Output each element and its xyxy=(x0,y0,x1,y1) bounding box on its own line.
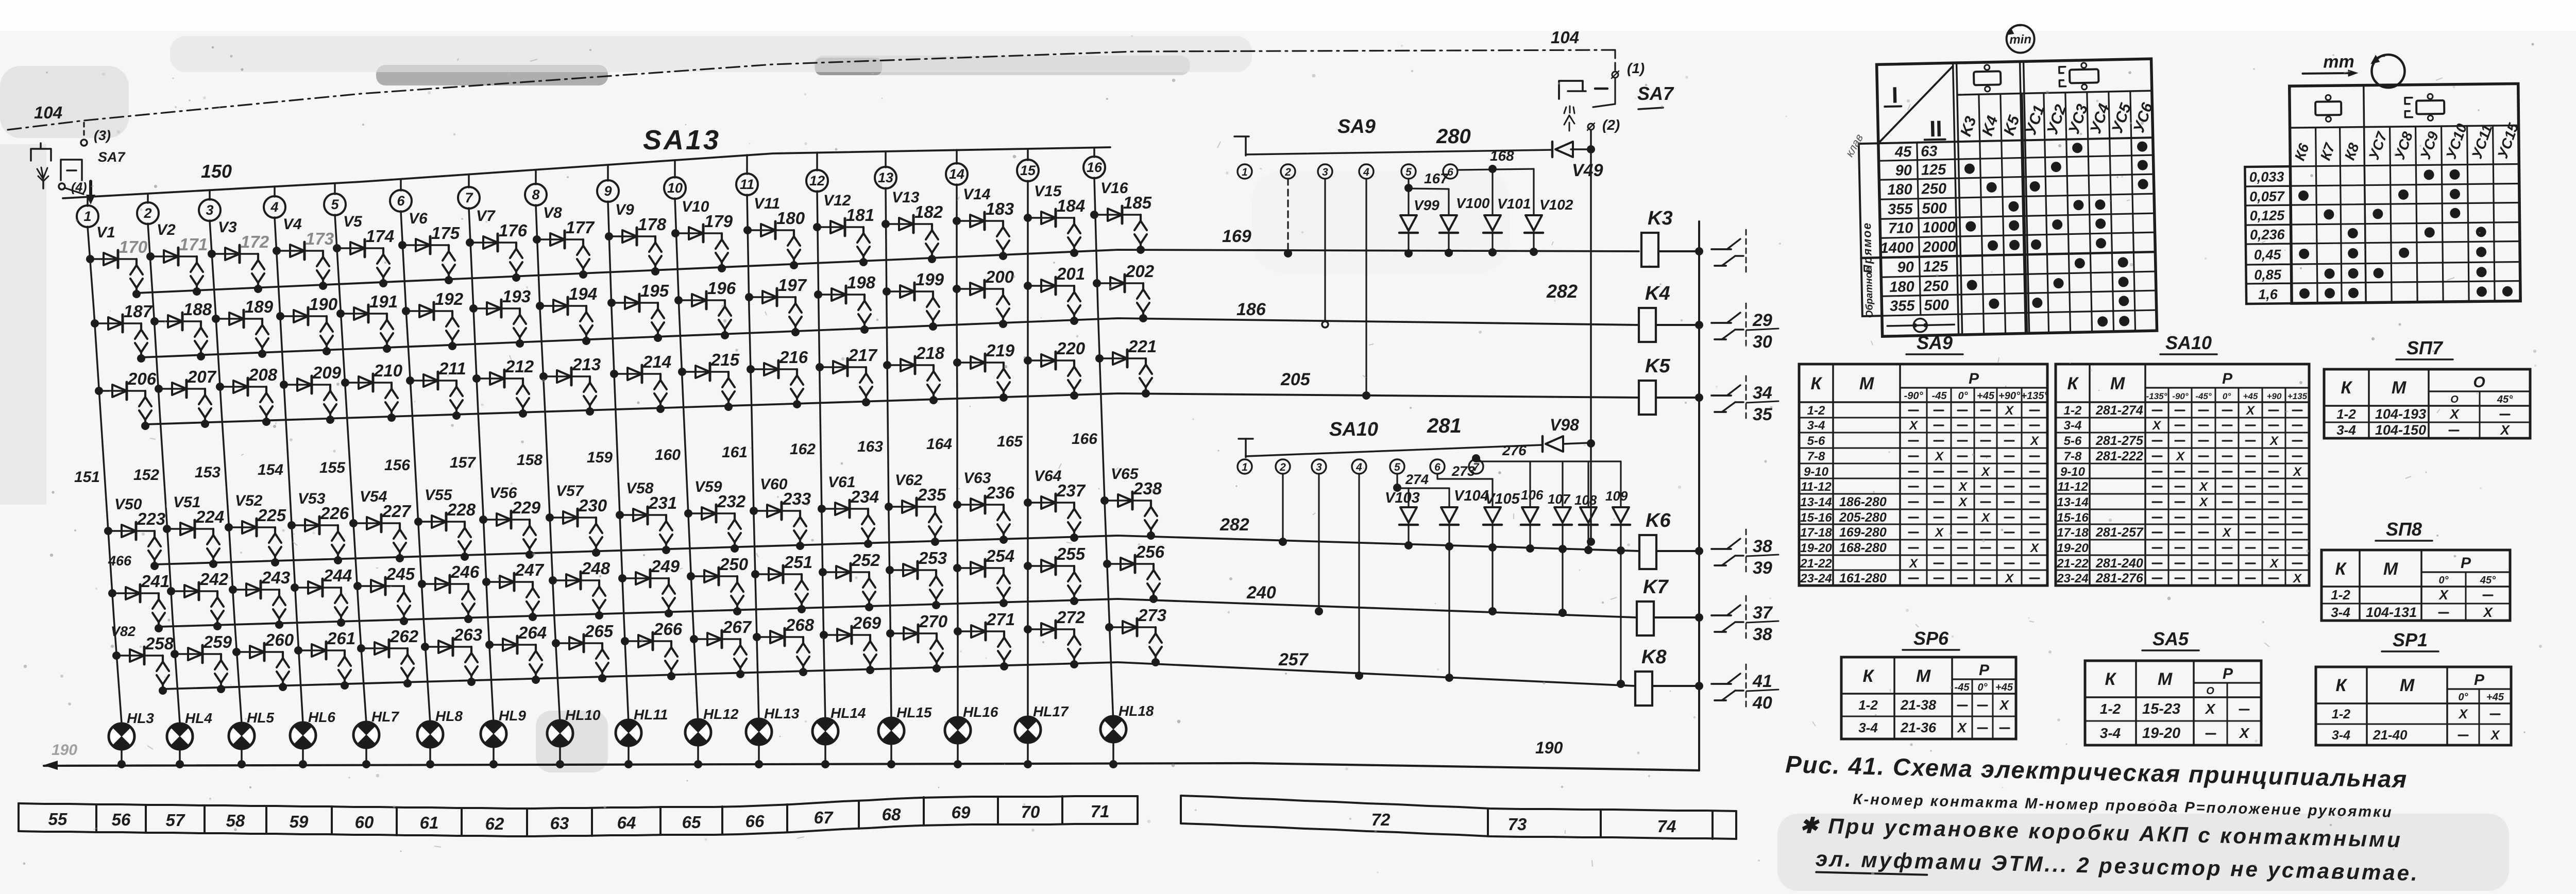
connector of diode 219 xyxy=(1003,363,1005,369)
wire SA10 contact 3 to 240 xyxy=(1318,474,1319,610)
svg-text:X: X xyxy=(2239,725,2250,741)
svg-text:34: 34 xyxy=(1753,383,1772,403)
svg-text:187: 187 xyxy=(124,302,153,321)
svg-text:29: 29 xyxy=(1752,311,1772,330)
svg-text:250: 250 xyxy=(1923,278,1948,295)
svg-text:45: 45 xyxy=(1894,144,1912,161)
diode V54 (227) xyxy=(353,522,400,524)
diode V15 (184) xyxy=(1028,217,1074,219)
relay K5 coil xyxy=(1639,381,1656,415)
svg-text:65: 65 xyxy=(682,813,701,832)
connector of diode 244 xyxy=(340,588,342,594)
table SA5 xyxy=(2085,661,2261,745)
svg-text:+45: +45 xyxy=(2486,692,2504,703)
svg-text:(3): (3) xyxy=(94,128,111,143)
diode V59 (232) xyxy=(688,512,735,514)
connector of diode V52 xyxy=(274,527,276,534)
svg-text:15-23: 15-23 xyxy=(2142,701,2180,717)
diode V198 (198) xyxy=(818,294,865,296)
switch SA9 contact 6 xyxy=(1443,164,1458,179)
svg-text:V2: V2 xyxy=(157,221,176,238)
svg-text:265: 265 xyxy=(584,622,614,641)
diode V50 (223) xyxy=(108,530,155,532)
diode V215 (215) xyxy=(682,371,728,373)
svg-text:192: 192 xyxy=(435,289,464,308)
svg-text:HL12: HL12 xyxy=(703,706,739,722)
connector of diode 265 xyxy=(601,643,603,649)
svg-text:3-4: 3-4 xyxy=(2064,419,2082,433)
connector of diode V56 xyxy=(529,520,531,526)
svg-text:170: 170 xyxy=(119,237,148,256)
wire collector (right vertical) xyxy=(1698,221,1700,770)
svg-text:М: М xyxy=(2400,676,2415,695)
svg-text:180: 180 xyxy=(776,209,805,228)
diode 108 (SA10 group) xyxy=(1587,461,1589,507)
svg-text:X: X xyxy=(2198,495,2209,509)
diode V99 xyxy=(1408,188,1409,215)
wire column 9 xyxy=(608,201,629,723)
svg-text:V101: V101 xyxy=(1497,196,1531,212)
svg-text:X: X xyxy=(2222,526,2232,540)
svg-text:V52: V52 xyxy=(235,492,263,509)
svg-text:72: 72 xyxy=(1371,810,1391,829)
svg-text:212: 212 xyxy=(505,357,534,376)
diode V260 (260) xyxy=(236,651,283,653)
svg-text:71: 71 xyxy=(1091,802,1110,821)
junction lamp HL11 to wire 190 xyxy=(628,747,630,764)
svg-text:205-280: 205-280 xyxy=(1839,510,1887,525)
switch SA10 contact 2 xyxy=(1276,459,1290,474)
svg-text:106: 106 xyxy=(1521,487,1544,503)
svg-text:246: 246 xyxy=(450,562,480,581)
switch SA10 wiper corner xyxy=(1239,438,1253,440)
svg-text:268: 268 xyxy=(785,615,815,634)
svg-text:X: X xyxy=(2151,419,2162,433)
wire 190 (lamp return bus) xyxy=(44,763,1699,770)
svg-text:104-193: 104-193 xyxy=(2375,406,2426,422)
diode V56 (229) xyxy=(483,519,530,521)
lamp HL11 xyxy=(616,720,641,746)
diode V247 (247) xyxy=(486,581,533,583)
svg-text:63: 63 xyxy=(1921,143,1938,160)
switch SA9 contact 2 xyxy=(1281,164,1295,179)
connector of diode 245 xyxy=(403,586,405,592)
diode V55 (228) xyxy=(418,521,465,523)
svg-text:1: 1 xyxy=(1242,461,1248,473)
node 16 (column wire circle) xyxy=(1093,148,1095,157)
svg-text:59: 59 xyxy=(290,812,309,831)
svg-text:К: К xyxy=(2067,374,2079,393)
icon: clutch with pins (T1 right group) xyxy=(2070,69,2099,83)
wire 169 (row bus) xyxy=(137,250,1639,293)
diode V103 (SA10 group) xyxy=(1408,488,1409,507)
connector of diode V57 xyxy=(595,518,597,524)
svg-text:4: 4 xyxy=(270,199,278,215)
wire 109 branch to 257 xyxy=(1620,550,1621,683)
svg-text:259: 259 xyxy=(203,632,232,651)
svg-text:HL13: HL13 xyxy=(764,706,800,721)
svg-text:5: 5 xyxy=(331,197,339,212)
svg-text:V100: V100 xyxy=(1456,195,1490,211)
svg-text:1: 1 xyxy=(83,209,91,224)
svg-text:272: 272 xyxy=(1056,608,1086,627)
svg-text:М: М xyxy=(2158,669,2173,689)
svg-text:11: 11 xyxy=(740,177,754,192)
svg-text:69: 69 xyxy=(952,803,971,822)
svg-text:V64: V64 xyxy=(1034,468,1062,485)
svg-text:V57: V57 xyxy=(556,483,584,500)
wire relay K3 to collector xyxy=(1658,250,1699,252)
svg-text:219: 219 xyxy=(986,341,1015,360)
diode V253 (253) xyxy=(890,569,936,571)
svg-text:168-280: 168-280 xyxy=(1839,541,1887,555)
switch SA7 (right) blade xyxy=(1614,78,1616,103)
svg-text:199: 199 xyxy=(916,270,944,289)
diode V195 (195) xyxy=(612,302,658,304)
diode V2 (171) xyxy=(150,255,197,257)
svg-text:21-36: 21-36 xyxy=(1900,720,1937,735)
connector of diode 252 xyxy=(868,572,870,578)
svg-text:62: 62 xyxy=(485,814,504,833)
svg-text:30: 30 xyxy=(1753,332,1772,352)
svg-text:214: 214 xyxy=(642,352,671,371)
svg-text:178: 178 xyxy=(638,215,667,234)
switch SA9 contact 5 xyxy=(1401,164,1416,179)
switch SA9 contact 3 xyxy=(1318,164,1332,179)
svg-text:V65: V65 xyxy=(1111,466,1139,483)
svg-text:37: 37 xyxy=(1753,603,1773,623)
svg-text:V15: V15 xyxy=(1034,183,1062,200)
svg-text:276: 276 xyxy=(1502,442,1527,458)
junction lamp HL5 to wire 190 xyxy=(241,750,243,764)
diode V218 (218) xyxy=(887,364,934,366)
svg-text:281-257: 281-257 xyxy=(2095,525,2144,540)
svg-text:0,125: 0,125 xyxy=(2249,208,2285,223)
svg-text:38: 38 xyxy=(1753,537,1772,556)
svg-text:19-20: 19-20 xyxy=(1800,541,1832,555)
wire 186 (row bus) xyxy=(141,318,1639,357)
diode V192 (192) xyxy=(406,310,452,312)
svg-text:281-222: 281-222 xyxy=(2095,449,2143,463)
svg-text:176: 176 xyxy=(499,221,528,240)
svg-text:2: 2 xyxy=(1279,461,1286,473)
diode V6 (175) xyxy=(402,244,449,246)
svg-text:HL4: HL4 xyxy=(185,710,212,726)
svg-text:125: 125 xyxy=(1923,259,1949,276)
svg-text:V63: V63 xyxy=(963,470,991,487)
wire 273 xyxy=(1436,474,1438,479)
svg-text:208: 208 xyxy=(248,365,278,384)
junction lamp HL4 to wire 190 xyxy=(179,750,181,764)
switch SA10 contact 5 xyxy=(1390,459,1404,474)
svg-text:6: 6 xyxy=(1447,166,1453,178)
junction wire 280 / wire 282 xyxy=(1587,145,1595,153)
wire 104 (top dash-dot bus) xyxy=(8,50,1615,130)
junction lamp HL10 to wire 190 xyxy=(559,747,561,764)
wire column 3 xyxy=(210,220,242,723)
connector of diode 213 xyxy=(589,376,591,383)
diode V255 (255) xyxy=(1028,565,1074,567)
svg-text:180: 180 xyxy=(1887,181,1912,198)
svg-text:V56: V56 xyxy=(489,485,517,502)
connector of diode 193 xyxy=(519,308,521,315)
svg-text:156: 156 xyxy=(384,457,410,474)
svg-text:74: 74 xyxy=(1657,817,1676,836)
svg-text:4: 4 xyxy=(1355,461,1362,473)
connector of diode 211 xyxy=(455,381,457,387)
svg-text:HL17: HL17 xyxy=(1033,703,1069,719)
wire column 15 xyxy=(1027,181,1029,723)
svg-text:HL15: HL15 xyxy=(896,704,932,720)
svg-text:V102: V102 xyxy=(1539,197,1573,213)
svg-text:K5: K5 xyxy=(1645,355,1670,377)
node 5 (column wire circle) xyxy=(334,183,336,194)
diode V221 (221) xyxy=(1099,357,1146,359)
connector of diode 207 xyxy=(204,389,206,395)
connector of diode V60 xyxy=(799,511,801,517)
svg-text:1-2: 1-2 xyxy=(2100,701,2121,717)
svg-text:162: 162 xyxy=(790,441,816,458)
diode V9 (178) xyxy=(609,235,655,237)
svg-text:245: 245 xyxy=(386,564,415,583)
wire column 7 xyxy=(469,208,494,723)
diode V193 (193) xyxy=(473,307,520,310)
svg-text:209: 209 xyxy=(312,363,342,382)
switch SA10 contact 3 xyxy=(1312,459,1326,474)
connector of diode V10 xyxy=(721,233,723,239)
connector of diode 194 xyxy=(585,306,587,312)
svg-text:15: 15 xyxy=(1020,163,1036,178)
svg-text:К: К xyxy=(2341,378,2353,398)
diode V245 (245) xyxy=(358,585,404,587)
junction lamp HL8 to wire 190 xyxy=(429,748,431,764)
svg-text:V16: V16 xyxy=(1100,180,1128,197)
node 13 (column wire circle) xyxy=(885,151,887,167)
svg-text:241: 241 xyxy=(141,572,170,591)
svg-text:249: 249 xyxy=(651,557,680,576)
svg-text:104-131: 104-131 xyxy=(2366,605,2417,620)
svg-text:0,45: 0,45 xyxy=(2254,247,2282,263)
diode V194 (194) xyxy=(540,305,586,307)
svg-text:158: 158 xyxy=(517,452,543,469)
connector of diode 243 xyxy=(278,590,280,596)
diode V219 (219) xyxy=(957,362,1004,364)
svg-text:0°: 0° xyxy=(2458,692,2468,703)
connector of diode V55 xyxy=(464,522,466,528)
svg-text:267: 267 xyxy=(722,617,752,637)
connector of diode 217 xyxy=(865,367,867,373)
svg-text:109: 109 xyxy=(1605,488,1628,504)
svg-text:SП7: SП7 xyxy=(2406,337,2444,358)
svg-text:193: 193 xyxy=(502,287,531,306)
svg-text:207: 207 xyxy=(187,367,217,386)
svg-text:HL5: HL5 xyxy=(247,710,274,726)
svg-text:3-4: 3-4 xyxy=(2331,605,2350,620)
connector of diode 242 xyxy=(216,591,218,597)
connector of diode 196 xyxy=(724,300,726,306)
svg-text:X: X xyxy=(1908,557,1919,571)
table SП7 xyxy=(2324,369,2530,438)
svg-text:163: 163 xyxy=(857,438,883,455)
contact of relay K8 xyxy=(1711,683,1731,685)
diode V11 (180) xyxy=(748,229,794,231)
svg-text:251: 251 xyxy=(784,553,812,572)
svg-text:1-2: 1-2 xyxy=(2336,406,2356,422)
svg-text:V8: V8 xyxy=(543,204,562,221)
wire relay K5 to collector xyxy=(1656,397,1699,399)
switch SA7 (right) minus link xyxy=(1595,88,1607,90)
switch SA10 contact 4 xyxy=(1352,459,1366,474)
diode 107 (SA10 group) xyxy=(1562,461,1563,507)
table SA9 xyxy=(1799,364,2047,586)
icon: relay coil with pins (T1 left group) xyxy=(1974,71,2001,85)
diode V272 (272) xyxy=(1028,628,1074,630)
svg-text:60: 60 xyxy=(355,813,374,832)
svg-text:2: 2 xyxy=(1284,166,1291,178)
wire column 10 xyxy=(675,198,698,723)
svg-text:280: 280 xyxy=(1436,125,1471,148)
svg-text:198: 198 xyxy=(847,273,876,292)
svg-text:-45°: -45° xyxy=(2195,391,2212,401)
diode V244 (244) xyxy=(295,587,341,589)
svg-text:0,85: 0,85 xyxy=(2254,267,2282,283)
svg-text:X: X xyxy=(2292,465,2302,479)
svg-text:104: 104 xyxy=(34,103,62,122)
svg-text:X: X xyxy=(2004,404,2014,418)
svg-text:466: 466 xyxy=(108,553,132,569)
connector of diode V13 xyxy=(931,224,933,230)
diode V13 (182) xyxy=(886,223,932,225)
svg-text:67: 67 xyxy=(814,808,834,827)
svg-text:+45: +45 xyxy=(1995,682,2013,693)
connector of diode V65 xyxy=(1150,501,1152,507)
svg-text:I: I xyxy=(1891,82,1898,108)
switch SA9 contact 4 xyxy=(1359,164,1374,179)
svg-text:О: О xyxy=(2206,685,2214,697)
svg-text:SA10: SA10 xyxy=(1329,419,1378,440)
diode V196 (196) xyxy=(679,299,725,301)
svg-text:М: М xyxy=(2110,374,2125,393)
diode V200 (200) xyxy=(957,288,1003,290)
svg-text:V82: V82 xyxy=(111,624,135,639)
svg-text:V58: V58 xyxy=(626,480,654,497)
svg-text:5: 5 xyxy=(1405,166,1412,178)
junction lamp HL17 to wire 190 xyxy=(1027,744,1029,764)
connector of diode 209 xyxy=(329,385,331,391)
svg-text:190: 190 xyxy=(309,295,338,314)
connector of diode 249 xyxy=(668,578,670,584)
svg-text:281-275: 281-275 xyxy=(2095,434,2144,448)
svg-text:186: 186 xyxy=(1236,300,1266,319)
svg-text:196: 196 xyxy=(707,279,736,298)
svg-text:152: 152 xyxy=(133,467,159,484)
svg-text:V105: V105 xyxy=(1485,491,1520,507)
svg-text:-45: -45 xyxy=(1955,682,1970,693)
svg-text:X: X xyxy=(2449,406,2460,422)
svg-text:255: 255 xyxy=(1056,544,1086,563)
wire 280 xyxy=(1246,150,1552,154)
switch SA7 (left) hand-drive symbol xyxy=(42,181,44,188)
svg-text:X: X xyxy=(1980,511,1991,525)
connector of diode 246 xyxy=(467,584,469,590)
svg-text:14: 14 xyxy=(949,166,964,182)
svg-text:189: 189 xyxy=(245,297,274,316)
svg-text:К: К xyxy=(2335,559,2347,579)
diode V246 (246) xyxy=(422,583,468,585)
svg-text:X: X xyxy=(1956,720,1967,735)
connector of diode 251 xyxy=(801,574,803,580)
svg-text:Р: Р xyxy=(2461,555,2471,572)
svg-text:66: 66 xyxy=(745,812,765,831)
svg-text:1-2: 1-2 xyxy=(2332,707,2350,721)
svg-text:104: 104 xyxy=(1551,28,1579,47)
svg-text:41: 41 xyxy=(1752,672,1772,691)
wire column 11 xyxy=(747,195,759,723)
svg-text:0°: 0° xyxy=(1958,390,1968,402)
connector of diode 200 xyxy=(1002,289,1004,295)
svg-text:М: М xyxy=(1916,666,1931,686)
connector of diode 255 xyxy=(1073,566,1075,572)
diode V5 (174) xyxy=(337,247,383,249)
diode V98 xyxy=(1546,436,1563,452)
svg-text:X: X xyxy=(2490,728,2500,743)
svg-text:X: X xyxy=(2269,557,2279,571)
connector of diode 216 xyxy=(796,369,798,375)
connector of diode 198 xyxy=(863,295,866,301)
diode V262 (262) xyxy=(361,647,408,649)
svg-text:X: X xyxy=(1958,480,1968,494)
svg-text:73: 73 xyxy=(1508,815,1527,834)
connector of diode V2 xyxy=(196,256,198,263)
svg-text:0,236: 0,236 xyxy=(2250,227,2285,243)
table T1 (min selector matrix) xyxy=(1840,22,2161,337)
connector of diode V12 xyxy=(862,227,865,233)
wire column 16 xyxy=(1094,178,1113,723)
connector of diode 189 xyxy=(261,319,263,325)
connector of diode V58 xyxy=(665,515,667,521)
diode V214 (214) xyxy=(614,373,660,375)
connector of diode 191 xyxy=(386,314,388,320)
svg-text:155: 155 xyxy=(319,459,346,476)
diode V207 (207) xyxy=(159,388,205,390)
svg-text:63: 63 xyxy=(550,814,569,833)
svg-text:240: 240 xyxy=(1246,583,1276,603)
wire column 6 xyxy=(401,211,430,723)
connector of diode V62 xyxy=(934,507,936,513)
svg-text:X: X xyxy=(2245,404,2256,418)
diode V191 (191) xyxy=(341,313,387,315)
svg-text:V61: V61 xyxy=(828,474,855,491)
svg-text:171: 171 xyxy=(179,235,208,254)
diode V217 (217) xyxy=(820,366,866,368)
diode 106 (SA10 group) xyxy=(1529,461,1531,507)
svg-text:K4: K4 xyxy=(1645,283,1670,304)
relay K3 coil xyxy=(1641,233,1658,267)
diode V104 (SA10 group) xyxy=(1448,488,1450,507)
svg-text:21-38: 21-38 xyxy=(1900,697,1936,713)
svg-text:X: X xyxy=(1908,419,1919,433)
svg-text:17-18: 17-18 xyxy=(2057,526,2089,540)
relay K8 coil xyxy=(1635,672,1652,706)
svg-text:16: 16 xyxy=(1087,160,1103,175)
diode V199 (199) xyxy=(887,290,933,293)
junction lamp HL13 to wire 190 xyxy=(758,746,760,764)
connector of diode 266 xyxy=(670,641,672,647)
svg-text:Р: Р xyxy=(1979,662,1990,679)
diode V65 (238) xyxy=(1105,500,1151,502)
svg-text:3-4: 3-4 xyxy=(1807,419,1825,433)
connector of diode 206 xyxy=(144,391,146,397)
